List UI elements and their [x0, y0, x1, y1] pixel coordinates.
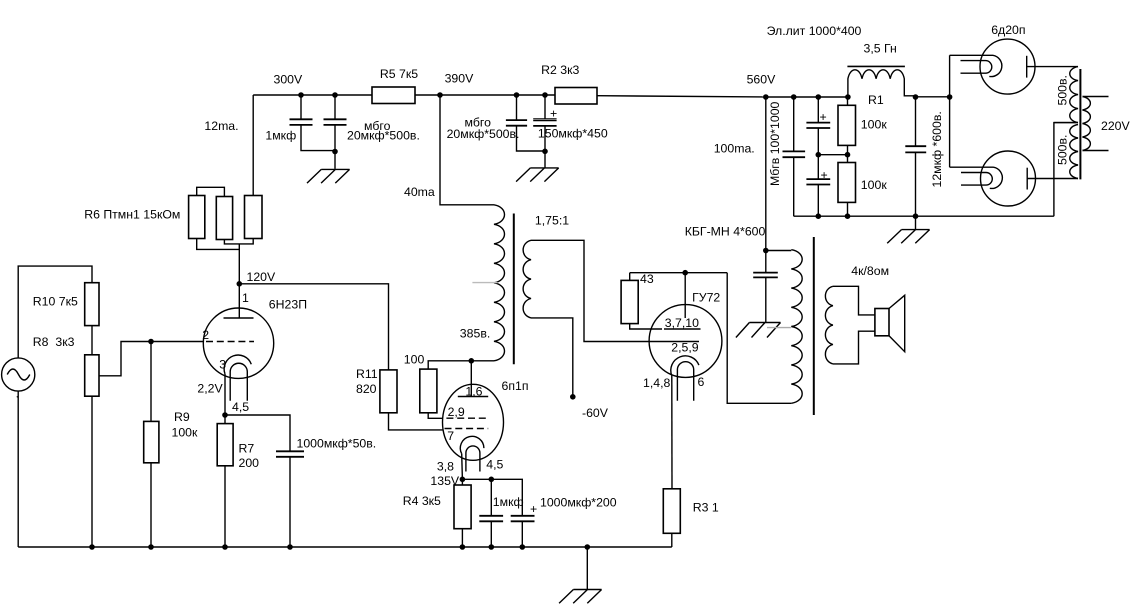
resistor R7	[217, 424, 233, 466]
svg-text:1мкф: 1мкф	[493, 495, 524, 509]
rectifier V4 anode bar	[1026, 56, 1028, 78]
wire 220V bottom lead	[1083, 150, 1109, 152]
wire V1 cathode lead	[224, 374, 226, 415]
wire R2 to 560V	[597, 96, 766, 97]
ground #2	[516, 168, 559, 182]
svg-text:100к: 100к	[172, 426, 199, 440]
AC source G1	[2, 358, 35, 391]
ground #4 (КБГ)	[736, 323, 781, 338]
tube V2 6п1п envelope	[443, 384, 504, 460]
svg-text:R5 7к5: R5 7к5	[380, 67, 418, 81]
wire V2 cathode lead	[461, 454, 464, 480]
wire 300V rail	[253, 94, 372, 96]
svg-text:100к: 100к	[861, 178, 888, 192]
transformer T1 centre mark	[472, 282, 497, 284]
transformer T3 HV winding upper 500в	[1070, 67, 1078, 123]
svg-text:3,5 Гн: 3,5 Гн	[864, 41, 897, 55]
capacitor 1мкф #2 plates	[479, 516, 503, 522]
resistor R10	[85, 283, 99, 326]
capacitor 150мкф*450 plates	[533, 119, 556, 121]
svg-text:2,9: 2,9	[448, 405, 465, 419]
svg-text:2,5,9: 2,5,9	[671, 340, 699, 354]
node rail C1мкф	[489, 544, 495, 550]
svg-text:3: 3	[219, 358, 226, 372]
wire R8 bottom to rail	[91, 396, 93, 547]
wire grid node to tube V1	[151, 341, 203, 343]
node 12мкф top	[913, 94, 919, 100]
node rectifier output	[947, 94, 953, 100]
wire 120V line to R11	[239, 284, 388, 370]
capacitor Эл.лит #1 plates	[806, 123, 830, 128]
svg-text:820: 820	[356, 382, 377, 396]
capacitor 1000мкф*200 plates	[511, 516, 535, 522]
wire cathode to C 1000мкф*50в	[225, 415, 290, 451]
svg-text:12мкф *600в.: 12мкф *600в.	[930, 111, 944, 187]
capacitor Эл.лит #2 plates	[806, 179, 830, 184]
resistor R1 upper leads	[847, 97, 849, 216]
svg-text:6п1п: 6п1п	[502, 379, 529, 393]
tube V2 cathode arc	[460, 436, 484, 453]
tube V1 6Н23П envelope	[203, 308, 273, 378]
transformer T3 primary 220V winding	[1083, 97, 1091, 151]
node lower rail 12мкф	[913, 213, 919, 219]
wire 220V top lead	[1083, 96, 1109, 98]
svg-text:12ma.: 12ma.	[204, 119, 238, 133]
rectifier V5 cathode arc	[990, 167, 1003, 188]
node Эл.лит top	[816, 94, 822, 100]
capacitor 1000мкф*200 bottom lead	[521, 521, 523, 547]
svg-text:R6 Птмн1 15кОм: R6 Птмн1 15кОм	[84, 208, 180, 222]
capacitor КБГ-МН 4*600 plates	[753, 273, 778, 278]
tube V2 anode underline pin 1,6	[458, 396, 488, 398]
resistor R9 leads	[150, 342, 152, 548]
wire resistor 100 to screen pin 2,9	[428, 413, 443, 419]
node T2 primary top	[763, 248, 769, 254]
resistor R6c	[245, 196, 263, 239]
rectifier V5 anode bar	[1026, 168, 1028, 190]
wire V2 anode pin 1,6	[470, 361, 472, 397]
speaker 4к/8ом	[875, 295, 905, 351]
transformer T2 secondary winding	[825, 286, 833, 364]
wire centre tap to 0V	[1054, 123, 1077, 217]
svg-text:390V: 390V	[445, 72, 475, 86]
wire R6 bottom bus b-c	[224, 239, 253, 244]
wire filtered rail	[916, 96, 950, 98]
wire R10-R8	[91, 326, 93, 355]
svg-text:3,7,10: 3,7,10	[665, 316, 699, 330]
wire R11 to grid pin 7	[389, 413, 444, 430]
transformer T1 primary winding	[494, 205, 505, 361]
svg-text:R2 3к3: R2 3к3	[541, 63, 579, 77]
svg-text:6: 6	[698, 375, 705, 389]
resistor R9	[144, 421, 159, 462]
capacitor Эл.лит #2 bottom lead	[817, 185, 819, 217]
resistor R6a	[189, 196, 205, 239]
node 300V	[298, 92, 304, 98]
transformer T2 core	[813, 237, 815, 415]
rectifier V5 6д20п bottom envelope	[981, 151, 1036, 206]
svg-text:1мкф: 1мкф	[265, 129, 296, 143]
tube V2 grid dashes pin 7	[445, 428, 489, 430]
svg-text:100ma.: 100ma.	[714, 142, 755, 156]
node rail R4	[460, 544, 466, 550]
svg-text:500в.: 500в.	[1056, 75, 1070, 105]
tube V3 grid feed wire	[684, 273, 686, 318]
svg-text:+: +	[530, 502, 537, 516]
artifact dot under source	[17, 396, 19, 398]
capacitor 1мкф #2 leads	[490, 479, 492, 547]
capacitor 1000мкф*50в plates	[276, 451, 304, 457]
node ground junction #1	[332, 149, 338, 155]
svg-text:4,5: 4,5	[232, 400, 249, 414]
svg-text:Эл.лит 1000*400: Эл.лит 1000*400	[767, 24, 862, 38]
capacitor КБГ-МН 4*600 leads	[765, 251, 767, 323]
resistor R1 upper	[838, 105, 856, 145]
resistor 43 leads	[630, 273, 662, 329]
node R1 top	[845, 94, 851, 100]
svg-text:1: 1	[242, 291, 249, 305]
svg-text:200: 200	[239, 456, 260, 470]
resistor 100 (screen stopper)	[420, 369, 437, 413]
node cap 20мкф#2 top	[514, 92, 520, 98]
wire R3 bottom	[671, 533, 673, 547]
ground #5 (PSU)	[887, 216, 929, 243]
node lower rail R1	[845, 213, 851, 219]
svg-text:100к: 100к	[861, 117, 888, 131]
wire 390V drop to T1 primary	[440, 95, 494, 205]
node grid ГУ72	[682, 270, 688, 276]
svg-text:560V: 560V	[747, 73, 777, 87]
svg-text:4,5: 4,5	[486, 458, 503, 472]
node lower rail Эл.лит	[816, 213, 822, 219]
capacitor 1мкф plates	[290, 119, 313, 125]
svg-text:1000мкф*50в.: 1000мкф*50в.	[297, 436, 377, 450]
node rail R9	[148, 544, 154, 550]
node rail ground	[585, 544, 591, 550]
svg-text:R10 7к5: R10 7к5	[33, 295, 78, 309]
svg-text:1000мкф*200: 1000мкф*200	[540, 496, 617, 510]
svg-text:-60V: -60V	[582, 406, 609, 420]
node Мбгв top	[791, 94, 797, 100]
capacitor Эл.лит #1 leads	[817, 97, 819, 179]
grey mark near ground #4	[767, 327, 791, 329]
svg-text:385в.: 385в.	[460, 327, 490, 341]
svg-text:КБГ-МН 4*600: КБГ-МН 4*600	[685, 224, 766, 238]
resistor R6b	[216, 197, 232, 240]
capacitor Мбгв 100*1000 plates	[783, 151, 806, 157]
capacitor 12мкф*600в leads	[915, 97, 917, 216]
rectifier V5 heater hairpin	[961, 173, 992, 186]
wire rectifier cathode bus	[949, 55, 951, 167]
svg-text:20мкф*500в.: 20мкф*500в.	[347, 129, 420, 143]
node rail C1000мкф	[520, 544, 526, 550]
tube V2 screen dashes pin 2,9	[446, 417, 488, 419]
svg-text:150мкф*450: 150мкф*450	[538, 127, 608, 141]
wire T1 secondary top to ГУ72 cathode	[531, 240, 699, 341]
resistor R4 leads	[461, 479, 463, 547]
wire V3 cathode to R3	[671, 376, 673, 489]
wire grid node to T2 primary bottom	[727, 273, 791, 404]
node rail R7	[222, 544, 228, 550]
rectifier V4 cathode lead	[950, 54, 993, 56]
rectifier V5 cathode lead	[950, 166, 994, 168]
capacitor 12мкф*600в plates	[905, 146, 926, 152]
wire 560V to КБГ-МН	[765, 97, 767, 251]
wire V4 anode to winding	[1027, 66, 1078, 68]
svg-text:4к/8ом: 4к/8ом	[851, 264, 889, 278]
resistor R5	[372, 87, 415, 104]
tube V3 grid underline pins 3,7,10	[664, 328, 701, 330]
lower rail 0V	[794, 215, 1054, 217]
transformer T2 primary winding	[791, 250, 802, 404]
svg-text:R7: R7	[239, 441, 255, 455]
wire 300V drop to R6	[252, 95, 254, 196]
node 390V	[437, 92, 443, 98]
svg-text:135V: 135V	[430, 474, 460, 488]
transformer T1 core	[513, 214, 515, 365]
svg-text:2: 2	[202, 328, 209, 342]
svg-text:R9: R9	[174, 410, 190, 424]
node V2 anode junction	[469, 358, 475, 364]
transformer T3 core	[1079, 69, 1081, 179]
resistor R1 lower	[838, 163, 856, 203]
svg-text:6Н23П: 6Н23П	[269, 297, 307, 311]
node cap 1мкф#2 top	[489, 477, 495, 483]
tube V3 ГУ72 envelope	[649, 305, 722, 378]
wire: source top to R10	[18, 266, 92, 358]
tube V1 anode bar pin 1	[224, 284, 254, 318]
resistor R4	[454, 485, 471, 529]
choke 3,5 Гн core bar	[847, 65, 905, 67]
wire: source bottom to rail	[17, 391, 19, 547]
resistor R8	[85, 355, 99, 396]
svg-text:+: +	[820, 110, 827, 124]
capacitor 150мкф*450 leads	[544, 95, 546, 168]
wire R5 to R2	[415, 94, 555, 96]
wire C 1000мкф*50в bottom	[289, 457, 291, 547]
svg-text:40ma: 40ma	[404, 185, 435, 199]
wire T2 secondary bottom to speaker	[833, 331, 875, 364]
wire T1 secondary bottom to -60V	[531, 318, 573, 397]
node cap 150мкф top	[542, 92, 548, 98]
transformer T3 HV winding lower 500в	[1070, 125, 1078, 179]
svg-text:6д20п: 6д20п	[991, 23, 1025, 37]
resistor R11	[380, 370, 397, 413]
node ground junction #2	[542, 149, 548, 155]
svg-text:+: +	[821, 168, 828, 182]
resistor R2	[555, 88, 597, 105]
terminal -60V	[570, 394, 576, 400]
svg-text:1,6: 1,6	[465, 384, 482, 398]
ground #3 bottom	[559, 590, 601, 604]
capacitor мбго 20мкф*500в #1 leads	[334, 95, 336, 169]
resistor R7 leads	[224, 415, 226, 547]
resistor R3	[663, 489, 680, 534]
wire R8 wiper to grid node	[99, 342, 151, 376]
wire V5 anode to winding	[1027, 178, 1078, 180]
svg-text:R4 3к5: R4 3к5	[403, 494, 441, 508]
svg-text:100: 100	[404, 352, 425, 366]
wire node to T2 primary top	[766, 250, 792, 252]
svg-text:1,75:1: 1,75:1	[535, 214, 569, 228]
node: grid of V1 junction	[148, 339, 154, 345]
wire T3 centre tap	[1054, 122, 1078, 124]
svg-text:+: +	[550, 107, 557, 121]
wire R6 bottom bus a to 120V node	[197, 239, 240, 284]
capacitor мбго 20мкф*500в #2 plates	[506, 120, 527, 126]
rectifier V4 cathode arc	[989, 55, 1002, 76]
svg-text:Мбгв 100*1000: Мбгв 100*1000	[768, 101, 782, 186]
wire T1 primary bottom	[428, 361, 494, 369]
svg-text:2,2V: 2,2V	[197, 382, 223, 396]
svg-text:43: 43	[640, 272, 654, 286]
wire Эл.лит midpoint to R1 midpoint	[818, 154, 847, 156]
tube V3 cathode arc	[671, 356, 699, 376]
capacitor мбго 20мкф*500в #2 leads	[517, 95, 546, 151]
node 120V	[237, 281, 243, 287]
capacitor мбго 20мкф*500в #1 plates	[324, 119, 347, 125]
svg-text:220V: 220V	[1101, 119, 1131, 133]
svg-text:1,4,8: 1,4,8	[643, 376, 671, 390]
node Эл.лит midpoint	[816, 152, 822, 158]
choke 3,5 Гн winding	[848, 70, 916, 97]
node cap 20мкф top	[332, 92, 338, 98]
node rail R8	[89, 544, 95, 550]
tube V1 heater hairpin pins 4,5	[230, 363, 247, 400]
wire ground stem bottom	[586, 547, 588, 590]
resistor 43	[621, 280, 638, 323]
node R1 midpoint	[845, 152, 851, 158]
svg-text:R11: R11	[356, 367, 378, 381]
wire R6 top bus	[197, 187, 225, 196]
node 560V	[763, 94, 769, 100]
node 135V	[460, 477, 466, 483]
tube V1 cathode arc pin 3	[224, 355, 251, 374]
svg-text:500в.: 500в.	[1056, 135, 1070, 165]
tube V1 grid dashes pin 2	[206, 341, 254, 343]
wire T2 secondary top to speaker	[833, 286, 875, 315]
capacitor Мбгв 100*1000 leads	[793, 97, 795, 216]
wire cathode to caps	[462, 479, 522, 516]
svg-text:300V: 300V	[274, 73, 304, 87]
wire grid node top	[630, 272, 728, 274]
bottom rail	[18, 546, 672, 548]
node rail C50v	[287, 544, 293, 550]
capacitor 1мкф leads	[301, 95, 335, 151]
svg-text:20мкф*500в.: 20мкф*500в.	[447, 127, 520, 141]
tube V3 heater hairpin pins 1,4,8 / 6	[677, 362, 693, 401]
svg-text:ГУ72: ГУ72	[692, 291, 720, 305]
ground #1	[307, 169, 350, 183]
svg-text:120V: 120V	[247, 270, 277, 284]
transformer T1 secondary winding	[523, 240, 531, 318]
svg-text:R1: R1	[868, 93, 884, 107]
node: V1 cathode junction	[222, 412, 228, 418]
svg-text:R3 1: R3 1	[693, 501, 719, 515]
rectifier V4 6д20п top envelope	[980, 39, 1035, 94]
wire 560V rail right	[766, 96, 848, 98]
rectifier V4 heater hairpin	[961, 61, 992, 74]
svg-text:R8 3к3: R8 3к3	[33, 335, 75, 349]
svg-text:7: 7	[447, 429, 454, 443]
svg-text:3,8: 3,8	[437, 460, 454, 474]
tube V2 heater hairpin pins 4,5	[466, 446, 480, 472]
